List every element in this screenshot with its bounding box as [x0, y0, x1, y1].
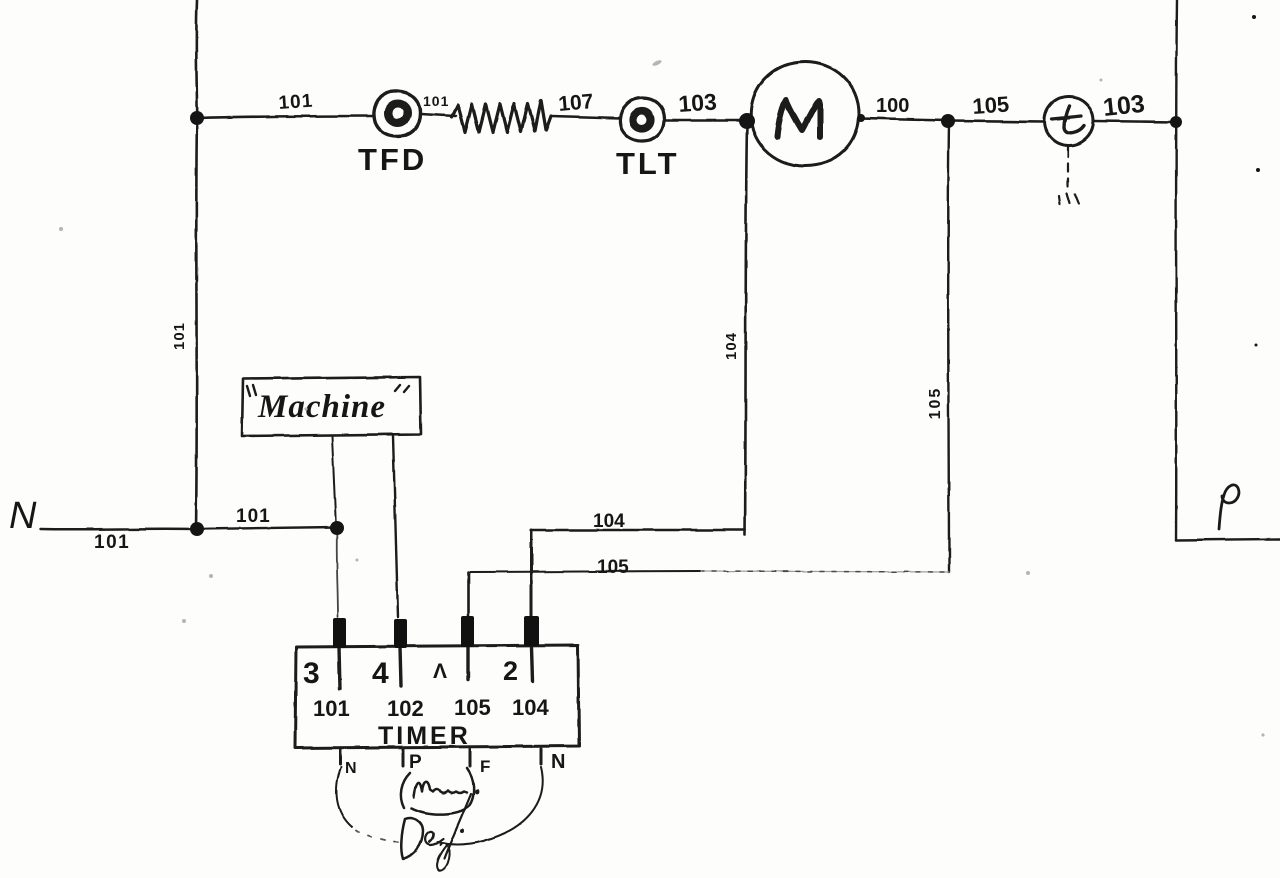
svg-text:4: 4	[372, 657, 389, 690]
svg-text:104: 104	[512, 695, 549, 720]
svg-text:101: 101	[236, 506, 271, 527]
svg-text:TLT: TLT	[616, 146, 680, 181]
svg-text:F: F	[480, 757, 490, 776]
svg-text:TFD: TFD	[358, 142, 427, 177]
svg-text:101: 101	[423, 93, 449, 109]
svg-text:105: 105	[972, 91, 1010, 119]
svg-text:105: 105	[927, 387, 944, 420]
svg-text:2: 2	[503, 656, 518, 686]
svg-text:104: 104	[723, 332, 740, 360]
svg-text:101: 101	[313, 696, 350, 721]
svg-text:N: N	[551, 751, 565, 773]
svg-text:N: N	[345, 760, 357, 777]
svg-text:N: N	[9, 495, 37, 537]
svg-text:103: 103	[678, 88, 718, 117]
svg-text:101: 101	[278, 91, 314, 114]
svg-text:105: 105	[597, 557, 629, 578]
svg-text:107: 107	[557, 90, 594, 116]
svg-text:103: 103	[1102, 90, 1146, 122]
svg-text:Machine: Machine	[257, 389, 386, 425]
svg-text:P: P	[409, 752, 422, 773]
svg-text:105: 105	[454, 695, 491, 720]
svg-text:101: 101	[171, 322, 188, 350]
svg-text:3: 3	[303, 657, 320, 690]
svg-text:TIMER: TIMER	[378, 722, 471, 750]
svg-text:100: 100	[876, 95, 909, 117]
svg-text:Λ: Λ	[433, 660, 447, 683]
svg-text:102: 102	[387, 696, 424, 721]
svg-text:104: 104	[593, 511, 625, 532]
svg-text:101: 101	[94, 532, 130, 553]
